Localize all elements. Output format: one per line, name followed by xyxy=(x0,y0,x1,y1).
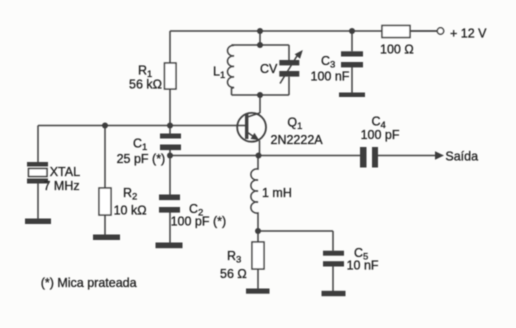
svg-text:56 kΩ: 56 kΩ xyxy=(129,78,162,92)
svg-text:10 kΩ: 10 kΩ xyxy=(114,204,147,218)
svg-text:100 Ω: 100 Ω xyxy=(380,43,414,57)
svg-text:100 pF (*): 100 pF (*) xyxy=(171,215,227,229)
svg-text:25 pF (*): 25 pF (*) xyxy=(117,152,166,166)
svg-text:100 pF: 100 pF xyxy=(361,128,400,142)
svg-text:2N2222A: 2N2222A xyxy=(271,133,324,147)
svg-text:56 Ω: 56 Ω xyxy=(220,267,247,281)
svg-text:XTAL: XTAL xyxy=(50,165,80,179)
svg-text:+ 12 V: + 12 V xyxy=(450,27,487,41)
svg-text:1 mH: 1 mH xyxy=(262,186,292,200)
svg-text:(*) Mica prateada: (*) Mica prateada xyxy=(41,276,137,290)
svg-text:10 nF: 10 nF xyxy=(347,259,379,273)
svg-text:7 MHz: 7 MHz xyxy=(44,179,80,193)
svg-text:Saída: Saída xyxy=(445,150,478,164)
svg-text:CV: CV xyxy=(260,62,278,76)
svg-text:100 nF: 100 nF xyxy=(311,69,350,83)
